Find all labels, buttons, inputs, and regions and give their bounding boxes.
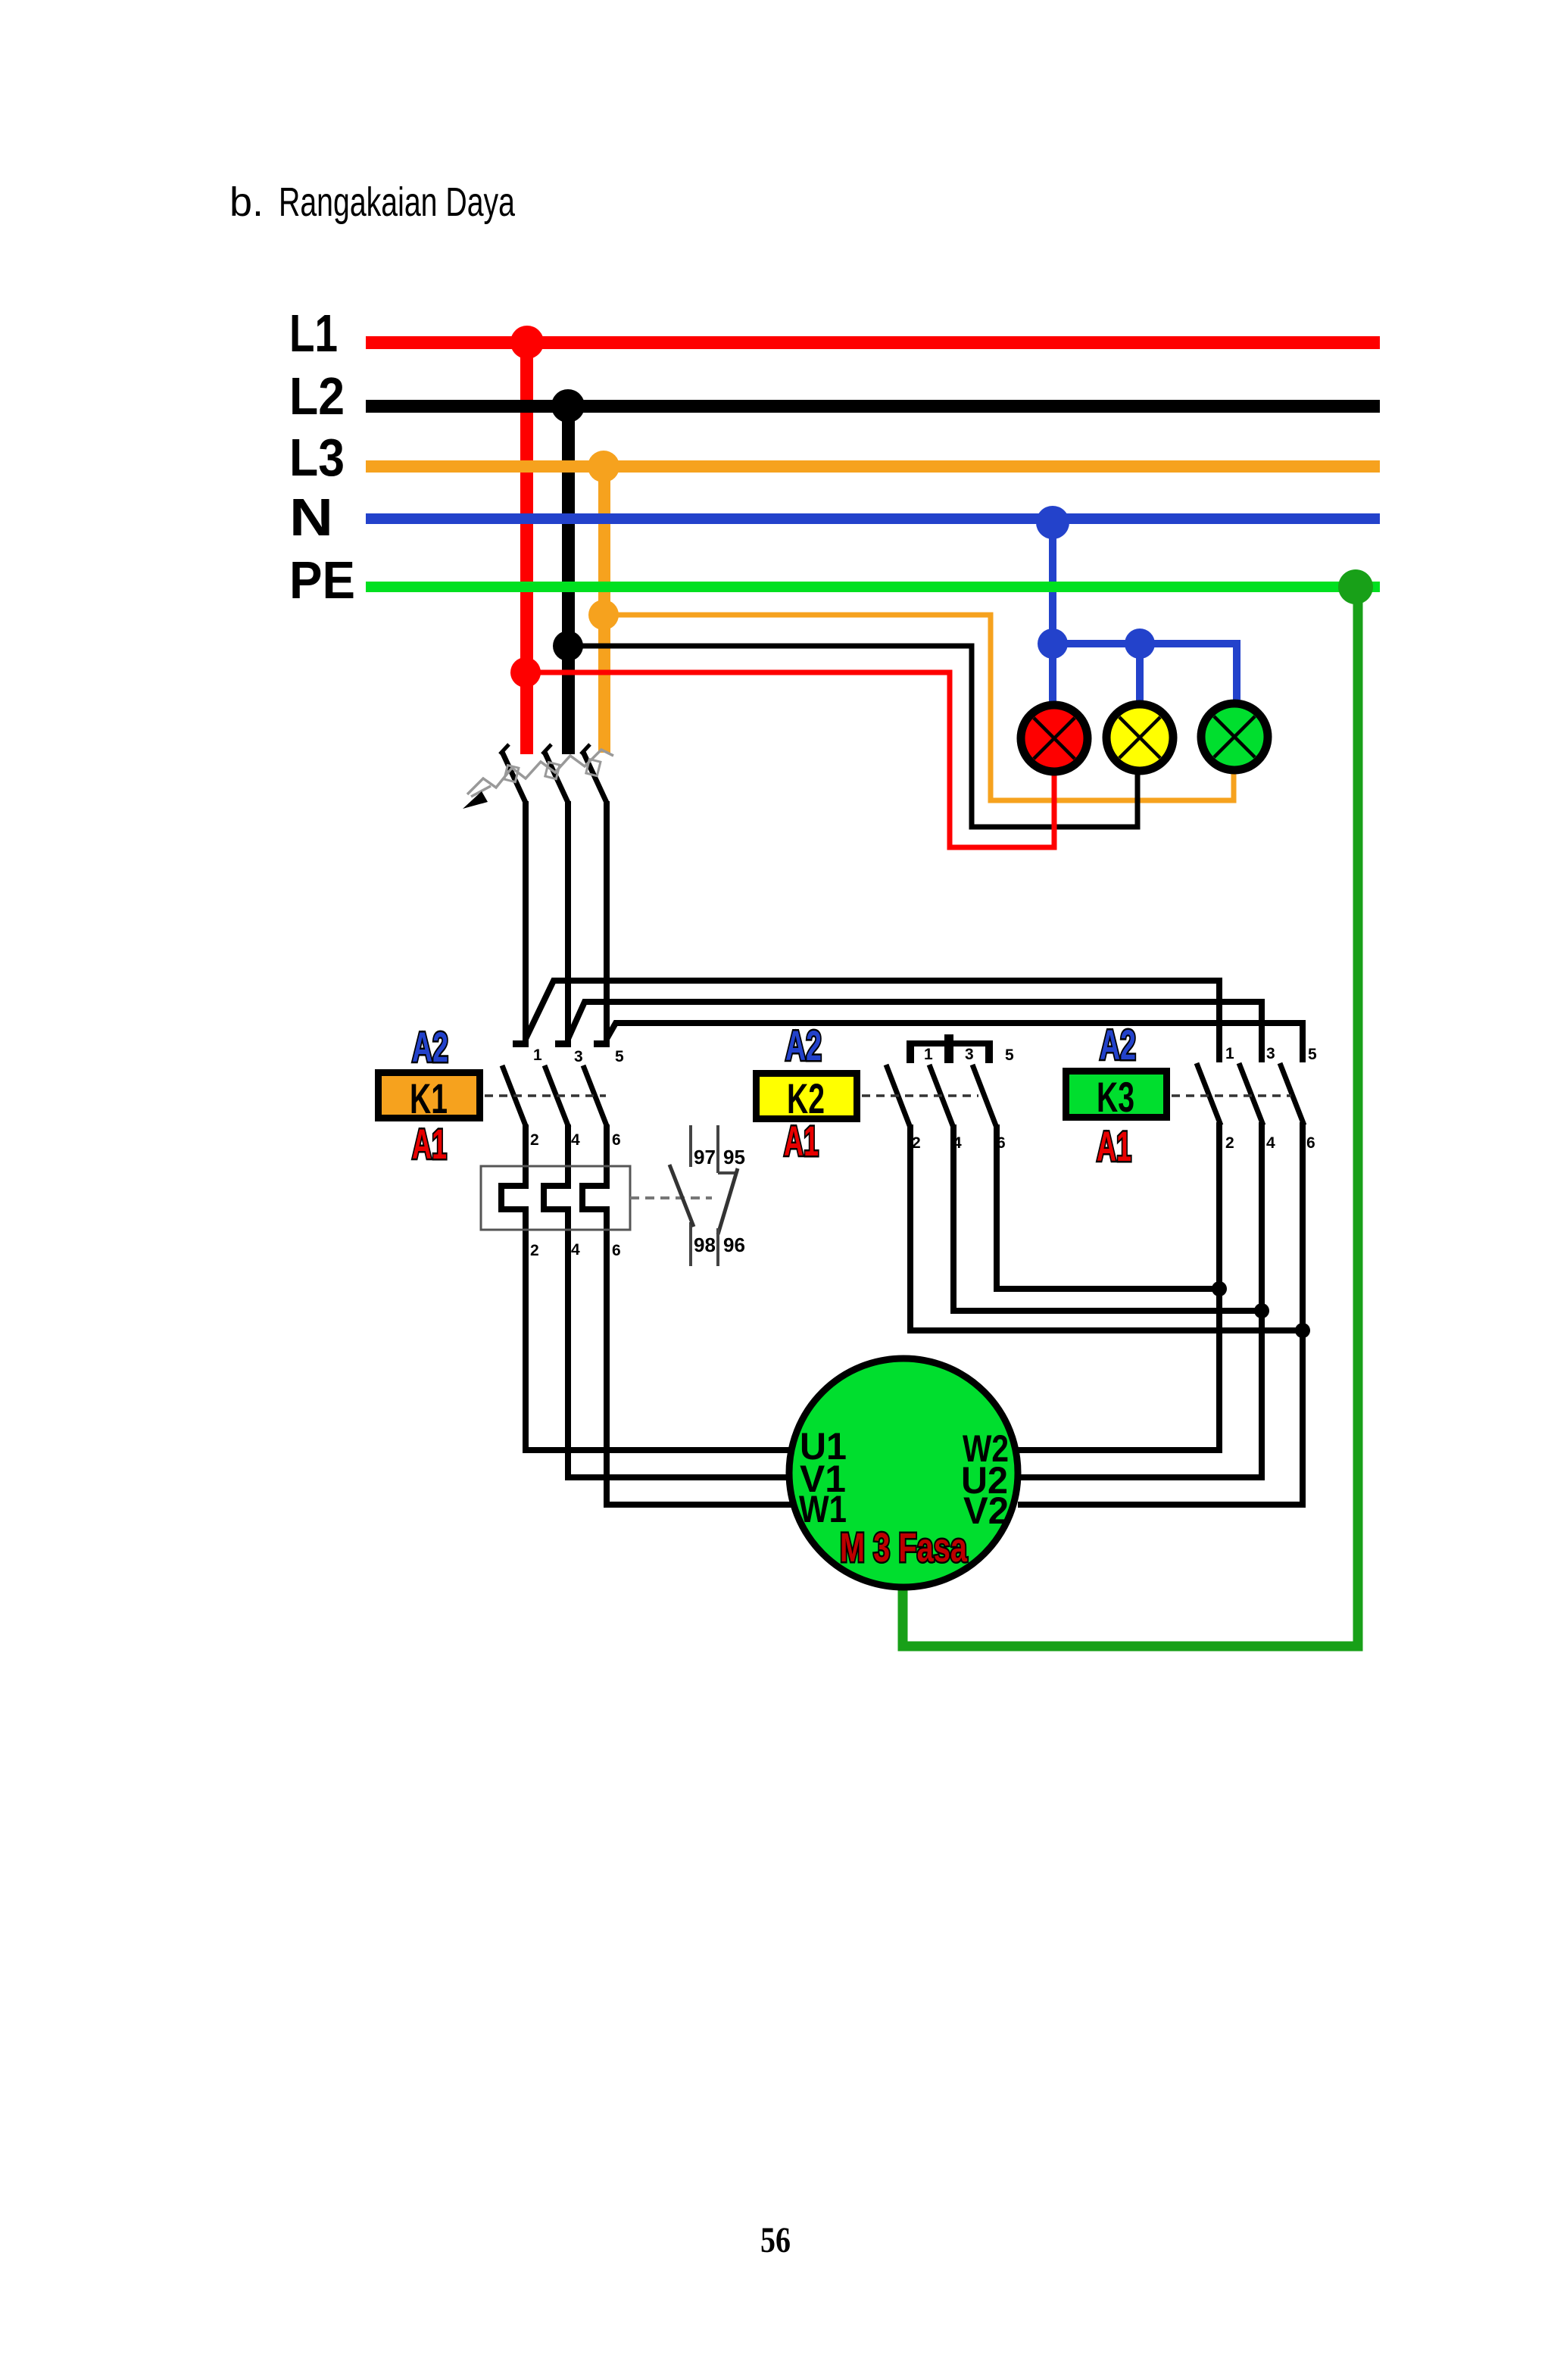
- wire K3 pole3 to motor V2: [1018, 1122, 1303, 1505]
- svg-text:96: 96: [723, 1234, 745, 1256]
- svg-text:1: 1: [1225, 1045, 1234, 1062]
- svg-text:97: 97: [694, 1146, 716, 1168]
- junction blue B: [1125, 629, 1155, 659]
- svg-text:95: 95: [723, 1146, 745, 1168]
- junction L1 tap: [510, 326, 544, 359]
- wire L2 feeder drop: [562, 406, 575, 754]
- wire N drop: [1049, 522, 1056, 701]
- wire breaker to K1 pole2: [565, 801, 571, 1043]
- svg-text:2: 2: [530, 1242, 539, 1259]
- wire red to lamp H1: [526, 672, 1054, 847]
- bus L1: [366, 336, 1380, 349]
- svg-text:M 3 Fasa: M 3 Fasa: [840, 1525, 968, 1571]
- wire K2 pole1 to net V2: [910, 1327, 1303, 1330]
- svg-text:1: 1: [533, 1047, 542, 1064]
- svg-text:98: 98: [694, 1234, 716, 1256]
- svg-text:K3: K3: [1097, 1073, 1134, 1121]
- contactor K1 terminal ticks: [513, 1040, 610, 1047]
- wire blue lamp header: [1049, 640, 1240, 647]
- wire net C to K3: [607, 1023, 1303, 1062]
- junction W2 net: [1212, 1281, 1227, 1296]
- dashed link K1: [485, 1094, 606, 1097]
- svg-text:3: 3: [574, 1048, 583, 1065]
- bus L2: [366, 400, 1380, 413]
- wire K3 pole2 to motor U2: [1018, 1122, 1262, 1477]
- wire K2 pole2 down: [950, 1124, 957, 1311]
- bus N: [366, 513, 1380, 524]
- svg-text:N: N: [289, 488, 333, 547]
- wire blue drop to lamp H2: [1136, 644, 1144, 700]
- contactor K3 blades: [1197, 1063, 1304, 1125]
- wire K2 pole2 to net U2: [953, 1308, 1262, 1311]
- wire black to lamp H2: [568, 646, 1138, 827]
- svg-text:A2: A2: [785, 1022, 822, 1069]
- junction U2 net: [1254, 1303, 1269, 1318]
- wire L1 feeder drop: [520, 342, 533, 754]
- circuit breaker Q1: [463, 744, 613, 809]
- svg-text:K1: K1: [410, 1075, 448, 1122]
- wire L3 feeder drop: [598, 466, 610, 753]
- svg-text:A1: A1: [784, 1117, 819, 1165]
- contactor K2 blades: [886, 1065, 997, 1128]
- wire K3 pole1 to motor W2: [1018, 1122, 1219, 1450]
- wire orange to lamp H3: [604, 615, 1234, 800]
- wire net B to K3: [568, 1002, 1262, 1062]
- junction red branch: [510, 657, 541, 688]
- svg-text:A2: A2: [1100, 1021, 1136, 1068]
- svg-text:6: 6: [612, 1242, 621, 1259]
- svg-text:V2: V2: [963, 1489, 1009, 1532]
- svg-text:K2: K2: [787, 1075, 825, 1122]
- svg-text:A1: A1: [1097, 1122, 1131, 1170]
- wire net A to K3: [526, 981, 1219, 1062]
- svg-text:6: 6: [612, 1131, 621, 1149]
- lamp H1 red: [1021, 705, 1088, 772]
- dashed link K3: [1172, 1094, 1291, 1097]
- svg-text:5: 5: [615, 1048, 624, 1065]
- coil box K1: [379, 1073, 480, 1118]
- wire PE to motor frame: [903, 587, 1358, 1646]
- junction L3 tap: [588, 451, 619, 482]
- junction L2 tap: [551, 389, 585, 423]
- junction orange branch: [588, 600, 619, 630]
- dashed link K2: [862, 1094, 978, 1097]
- svg-text:L1: L1: [289, 304, 338, 363]
- svg-text:A2: A2: [412, 1023, 448, 1071]
- coil box K2: [757, 1074, 857, 1119]
- coil box K3: [1066, 1071, 1167, 1118]
- svg-text:L2: L2: [289, 367, 345, 426]
- svg-text:2: 2: [530, 1131, 539, 1149]
- wire K1 pole1 to motor U1: [501, 1124, 791, 1450]
- svg-text:4: 4: [571, 1241, 580, 1259]
- svg-text:L3: L3: [289, 428, 345, 487]
- svg-text:5: 5: [1005, 1047, 1014, 1064]
- svg-text:Rangakaian Daya: Rangakaian Daya: [279, 179, 516, 225]
- wire breaker to K1 pole1: [523, 801, 529, 1043]
- dashed link F1 to aux: [630, 1196, 712, 1199]
- junction blue A: [1038, 629, 1068, 659]
- junction black branch: [553, 631, 583, 661]
- wire breaker to K1 pole3: [604, 801, 610, 1043]
- junction V2 net: [1295, 1323, 1310, 1338]
- aux contact 95-98 of F1: [669, 1125, 738, 1266]
- svg-text:W1: W1: [799, 1488, 847, 1530]
- wire K1 pole2 to motor V1: [544, 1124, 791, 1477]
- wire K1 pole3 to motor W1: [582, 1124, 791, 1505]
- svg-text:2: 2: [1225, 1134, 1234, 1152]
- junction N tap: [1036, 506, 1069, 539]
- lamp H2 yellow: [1106, 704, 1173, 771]
- wire blue drop to lamp H3: [1233, 644, 1240, 700]
- contactor K1 blades: [502, 1065, 607, 1128]
- junction PE tap: [1338, 569, 1373, 604]
- contactor K2 top bracket: [907, 1034, 993, 1063]
- overload relay F1 box: [481, 1166, 630, 1230]
- svg-text:b.: b.: [229, 179, 264, 225]
- svg-text:4: 4: [1266, 1134, 1275, 1152]
- bus PE: [366, 582, 1380, 592]
- svg-text:3: 3: [1266, 1045, 1275, 1062]
- svg-text:5: 5: [1308, 1046, 1317, 1063]
- motor M 3 Fasa: [789, 1358, 1018, 1587]
- lamp H3 green: [1201, 703, 1268, 770]
- svg-text:4: 4: [571, 1131, 580, 1149]
- wire K2 pole3 down: [994, 1124, 1000, 1289]
- wire K2 pole3 to net W2: [997, 1286, 1219, 1289]
- svg-text:56: 56: [760, 2220, 791, 2260]
- svg-text:A1: A1: [412, 1120, 447, 1168]
- wire K2 pole1 down: [907, 1124, 913, 1330]
- svg-text:1: 1: [924, 1046, 933, 1063]
- svg-text:PE: PE: [289, 551, 355, 610]
- svg-text:6: 6: [1306, 1134, 1315, 1152]
- svg-text:3: 3: [965, 1046, 974, 1063]
- bus L3: [366, 460, 1380, 473]
